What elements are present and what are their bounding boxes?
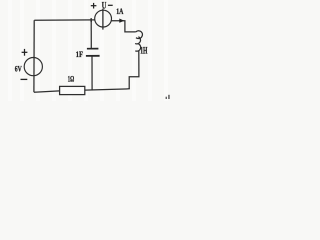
svg-text:1F: 1F: [76, 50, 83, 59]
svg-text:1A: 1A: [116, 7, 123, 16]
svg-text:1H: 1H: [140, 46, 147, 56]
svg-text:1Ω: 1Ω: [68, 75, 75, 84]
svg-text:U: U: [102, 0, 107, 10]
svg-text:6V: 6V: [15, 64, 23, 74]
